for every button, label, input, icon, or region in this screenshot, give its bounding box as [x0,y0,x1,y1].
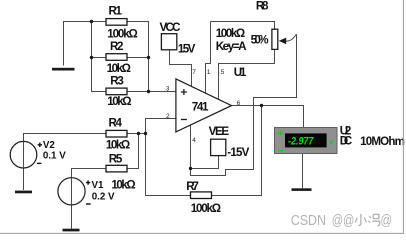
svg-text:@@: @@ [332,213,355,229]
svg-text:V: V [329,139,334,146]
svg-text:6: 6 [237,100,241,107]
svg-text:10kΩ: 10kΩ [107,95,131,108]
svg-text:5: 5 [221,69,225,76]
svg-text:DC: DC [340,135,353,148]
svg-text:0.1 V: 0.1 V [43,150,66,161]
svg-text:R5: R5 [109,153,123,166]
svg-text:10MOhm: 10MOhm [360,135,405,148]
svg-text:741: 741 [192,101,209,114]
svg-text:R4: R4 [109,116,123,129]
svg-text:R3: R3 [110,74,124,87]
svg-text:-15V: -15V [227,146,249,159]
svg-text:7: 7 [192,69,196,76]
svg-text:R8: R8 [256,0,269,13]
svg-text:2: 2 [166,113,170,120]
svg-text:VEE: VEE [209,125,230,138]
svg-text:100kΩ: 100kΩ [107,28,138,41]
svg-text:100kΩ: 100kΩ [191,202,221,215]
svg-text:4: 4 [192,137,196,144]
svg-text:10kΩ: 10kΩ [107,62,131,75]
svg-text:50%: 50% [251,34,269,47]
svg-text:0.2 V: 0.2 V [92,192,115,203]
svg-text:VCC: VCC [160,21,182,34]
svg-text:10kΩ: 10kΩ [111,178,135,191]
svg-text:100kΩ: 100kΩ [216,27,246,40]
svg-text:Key=A: Key=A [216,40,247,53]
svg-text:CSDN: CSDN [291,213,326,229]
svg-text:1: 1 [207,69,211,76]
svg-text:-2.977: -2.977 [288,136,314,148]
svg-text:U1: U1 [234,66,247,79]
svg-text:3: 3 [166,86,170,93]
svg-text:10kΩ: 10kΩ [106,138,130,151]
svg-text:R1: R1 [109,5,123,18]
svg-text:15V: 15V [178,42,196,55]
svg-text:R7: R7 [186,180,199,193]
svg-text:@: @ [380,213,392,229]
svg-text:R2: R2 [110,40,124,53]
svg-text:V1: V1 [92,180,105,191]
